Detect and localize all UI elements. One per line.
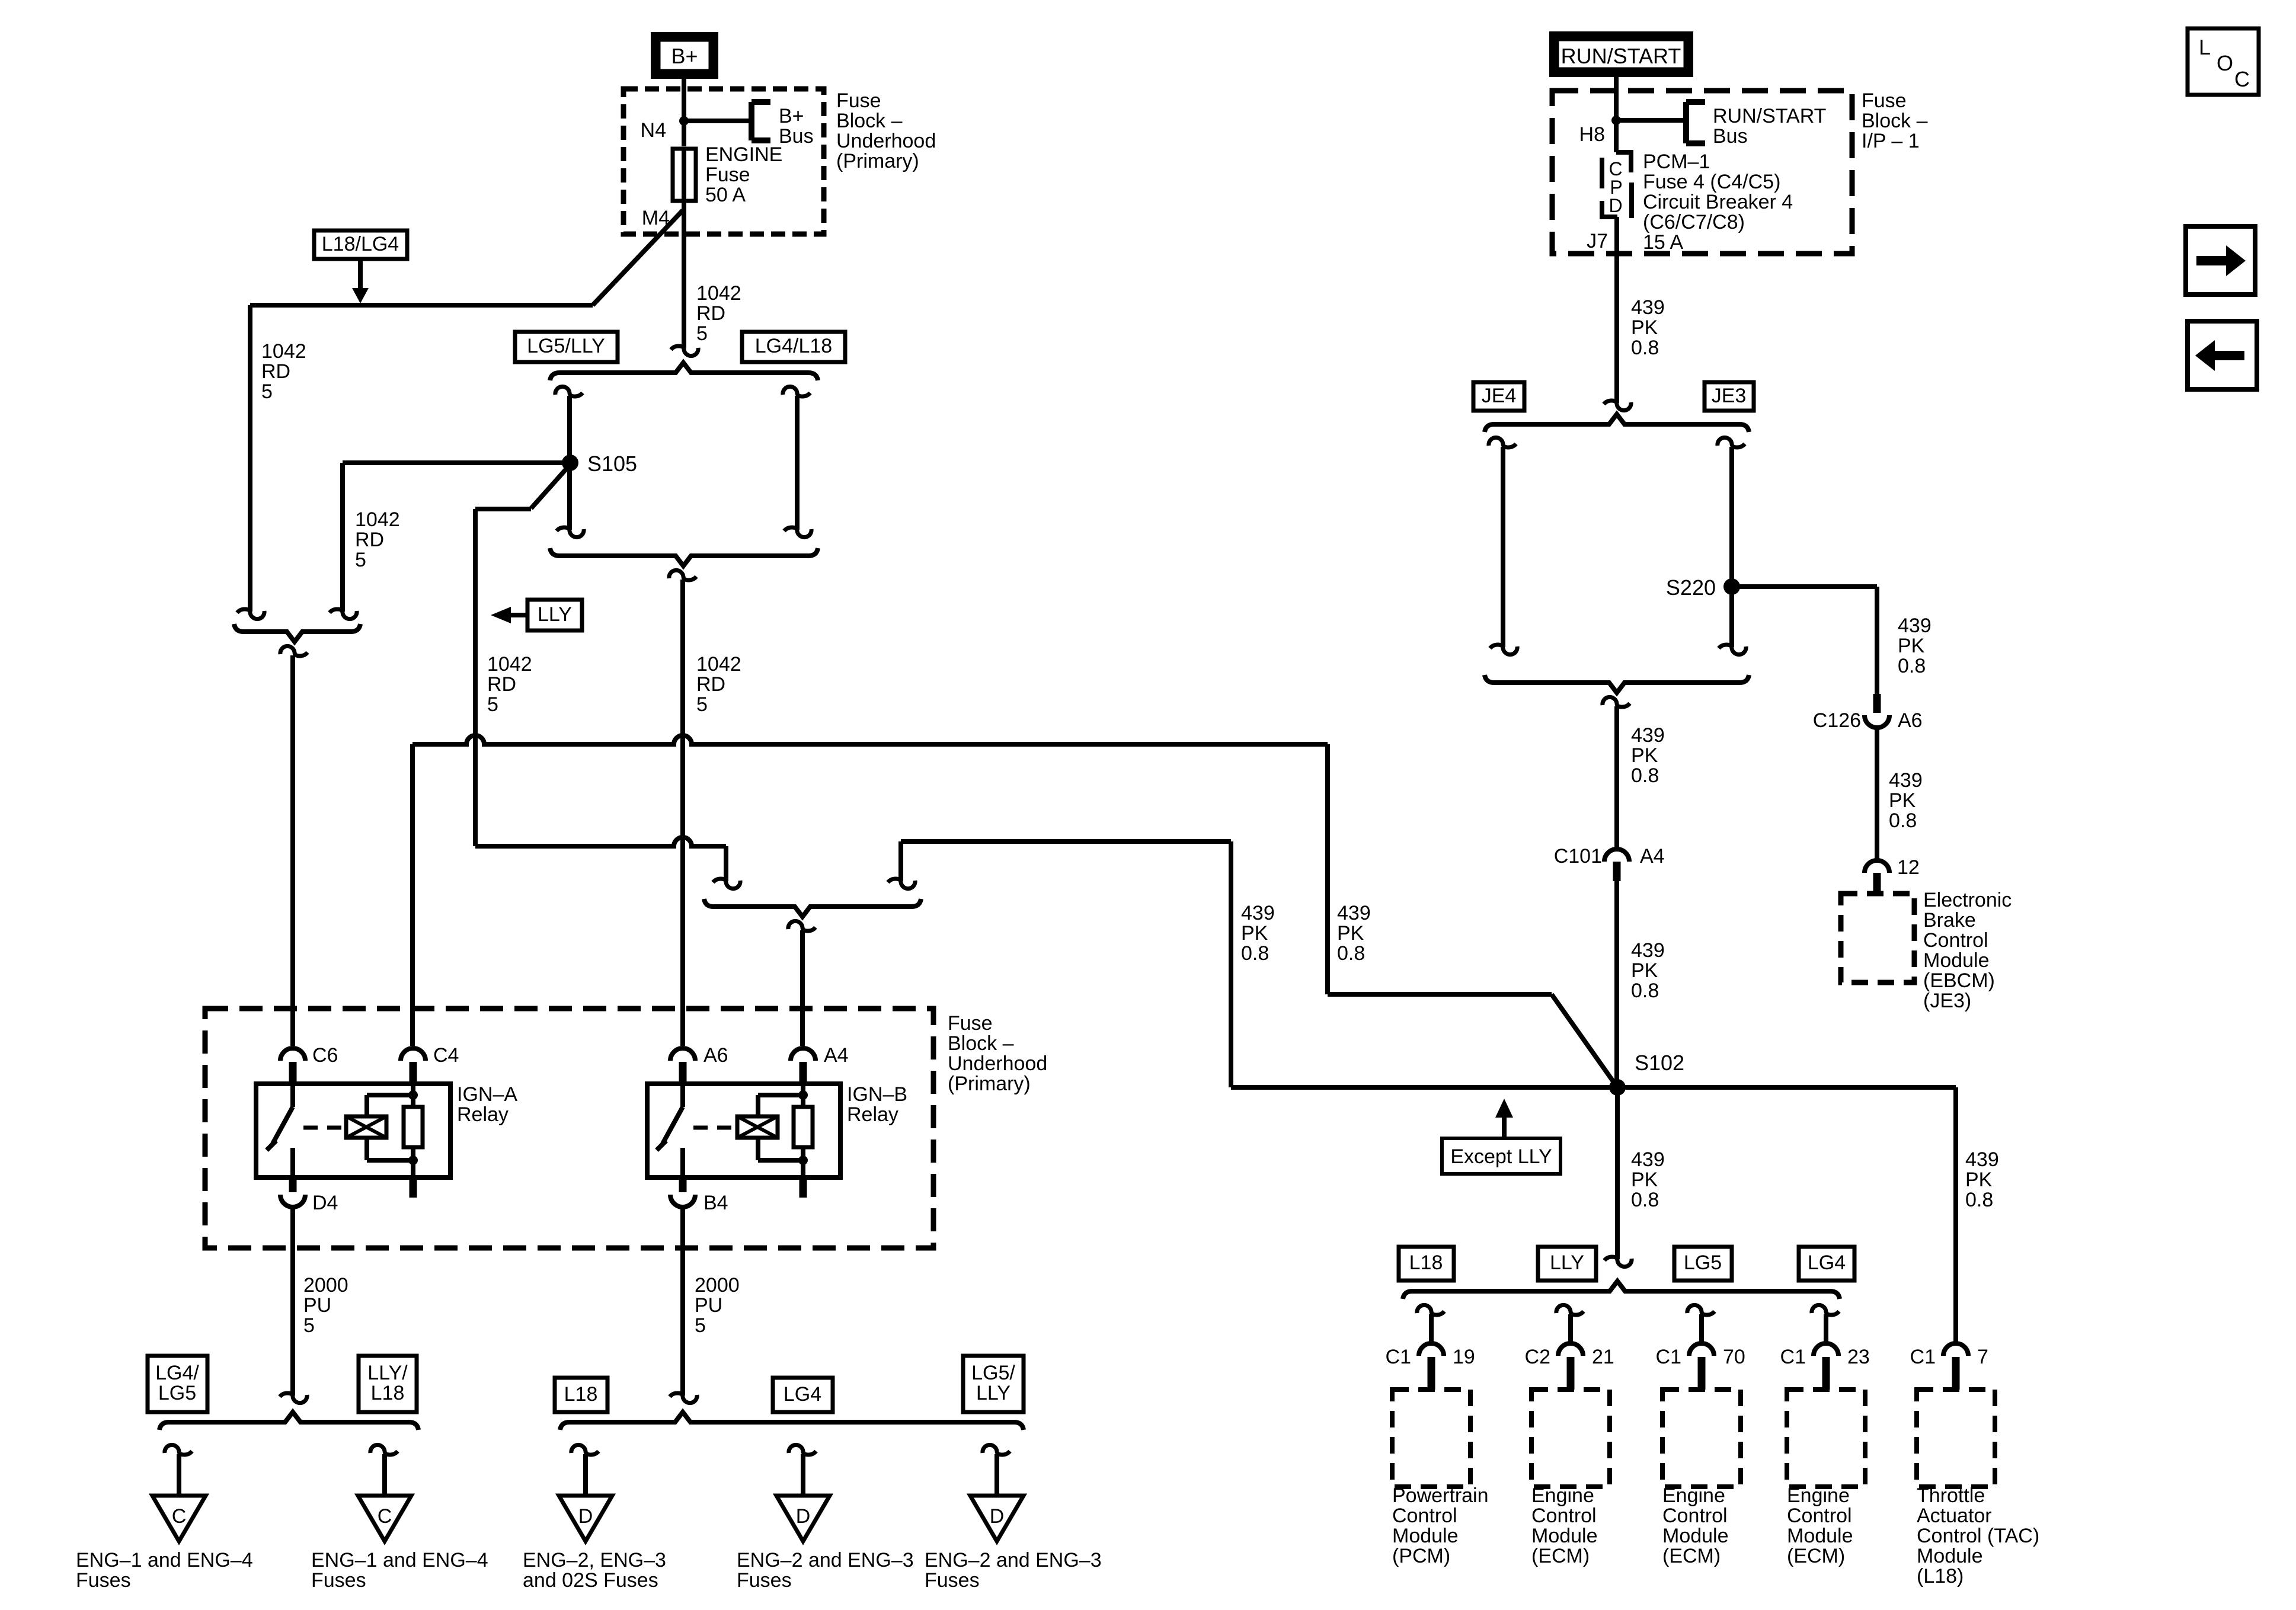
svg-text:(ECM): (ECM) xyxy=(1531,1545,1590,1567)
svg-text:0.8: 0.8 xyxy=(1337,942,1365,965)
svg-text:C1: C1 xyxy=(1656,1346,1681,1368)
svg-text:Block –: Block – xyxy=(1862,110,1928,132)
svg-text:C1: C1 xyxy=(1780,1346,1806,1368)
svg-text:RD: RD xyxy=(487,673,516,696)
connector C4 xyxy=(401,1048,426,1061)
connector C126 A6 xyxy=(1865,715,1889,728)
wire to C101 xyxy=(1614,706,1619,851)
label box Except LLY xyxy=(1442,1138,1560,1174)
option label box JE3 xyxy=(1705,382,1754,411)
wire H8 to bus xyxy=(1616,118,1686,123)
option label box L18 left xyxy=(555,1378,607,1412)
svg-text:PK: PK xyxy=(1631,744,1658,767)
svg-text:0.8: 0.8 xyxy=(1965,1189,1993,1211)
split brace D4 outputs xyxy=(159,1412,418,1430)
svg-text:(Primary): (Primary) xyxy=(836,150,919,172)
wire S220 right xyxy=(1732,584,1877,589)
wire right branch down to S102 rail xyxy=(1229,841,1233,1087)
branch hook right LG4/L18 xyxy=(783,386,810,396)
svg-text:JE4: JE4 xyxy=(1482,385,1517,407)
svg-text:(ECM): (ECM) xyxy=(1787,1545,1845,1567)
option label box LG4/LG5 xyxy=(148,1356,207,1412)
svg-text:5: 5 xyxy=(696,322,708,345)
branch hook PCM xyxy=(1417,1305,1444,1315)
wire break branch left bottom xyxy=(557,527,584,537)
wire to C triangle 2 xyxy=(382,1454,387,1496)
svg-text:B+: B+ xyxy=(671,44,698,68)
connector C6 xyxy=(280,1048,305,1061)
wire S102 down xyxy=(1615,1087,1620,1259)
branch hook LG4 xyxy=(789,1445,816,1455)
svg-text:21: 21 xyxy=(1592,1346,1614,1368)
svg-text:439: 439 xyxy=(1631,296,1665,319)
wire right branch up corner xyxy=(898,841,903,881)
svg-text:0.8: 0.8 xyxy=(1889,809,1917,832)
except LLY arrow xyxy=(1495,1099,1513,1118)
pin stub ECM2 xyxy=(1698,1357,1706,1390)
svg-text:A6: A6 xyxy=(703,1044,728,1067)
svg-text:IGN–A: IGN–A xyxy=(457,1083,517,1106)
wire 1042 line B with hop xyxy=(475,837,726,846)
fuse block underhood dashed box xyxy=(623,89,824,234)
node coil bottom IGN-B xyxy=(798,1156,808,1165)
option label box LG5/LLY xyxy=(515,332,618,362)
connector A4 xyxy=(791,1048,816,1061)
wire N4 to B+ bus xyxy=(684,119,752,123)
svg-text:5: 5 xyxy=(487,693,498,716)
grid triangle D 1 xyxy=(559,1496,612,1541)
svg-text:and 02S Fuses: and 02S Fuses xyxy=(523,1569,658,1592)
wire branch ECM1 xyxy=(1568,1314,1573,1343)
svg-text:(ECM): (ECM) xyxy=(1662,1545,1721,1567)
option label box L18/LG4 xyxy=(314,231,407,259)
svg-text:439: 439 xyxy=(1241,902,1275,924)
pin stub C126 top xyxy=(1873,694,1881,713)
svg-text:C6: C6 xyxy=(312,1044,338,1067)
svg-text:L: L xyxy=(2199,35,2211,59)
svg-text:L18: L18 xyxy=(371,1382,405,1404)
wire break left leg bottom xyxy=(237,609,264,619)
wire line A left corner down to C4 xyxy=(410,744,415,1046)
module dashed box ECM1 xyxy=(1531,1390,1610,1487)
node coil top IGN-B xyxy=(798,1090,808,1100)
relay box IGN-B xyxy=(647,1084,840,1177)
wire break below M4 xyxy=(671,346,698,356)
svg-text:C4: C4 xyxy=(433,1044,459,1067)
svg-text:7: 7 xyxy=(1977,1346,1988,1368)
svg-text:439: 439 xyxy=(1631,1148,1665,1171)
svg-text:C: C xyxy=(378,1505,392,1528)
svg-text:D: D xyxy=(796,1505,811,1528)
RUN/START bus bar xyxy=(1683,102,1689,143)
svg-text:RUN/START: RUN/START xyxy=(1561,44,1681,68)
wire break below S102 xyxy=(1604,1257,1632,1267)
coil wire top IGN-A xyxy=(364,1095,369,1116)
svg-text:439: 439 xyxy=(1337,902,1371,924)
wire C101 to S102 xyxy=(1614,881,1619,1087)
svg-text:15 A: 15 A xyxy=(1643,231,1683,254)
svg-text:PU: PU xyxy=(695,1294,722,1317)
svg-text:5: 5 xyxy=(261,380,273,403)
wire M4 down xyxy=(682,201,686,348)
node coil bottom IGN-A xyxy=(408,1156,418,1165)
wire line A diagonal to S102 xyxy=(1552,994,1617,1087)
branch hook LG4/LG5 xyxy=(165,1445,192,1455)
svg-text:2000: 2000 xyxy=(303,1274,348,1297)
svg-text:(C6/C7/C8): (C6/C7/C8) xyxy=(1643,211,1745,233)
split brace B4 outputs xyxy=(560,1412,1024,1430)
svg-text:ENG–1 and ENG–4: ENG–1 and ENG–4 xyxy=(76,1549,253,1571)
svg-text:PK: PK xyxy=(1889,789,1916,812)
svg-text:0.8: 0.8 xyxy=(1631,337,1659,359)
svg-text:LLY: LLY xyxy=(1550,1251,1584,1274)
wire 1042 RD center down to A6 xyxy=(680,580,685,1046)
svg-text:L18/LG4: L18/LG4 xyxy=(322,233,399,255)
power terminal RUN/START xyxy=(1553,36,1689,73)
svg-text:Engine: Engine xyxy=(1787,1484,1850,1507)
EBCM dashed box xyxy=(1841,894,1914,982)
svg-text:L18: L18 xyxy=(1409,1251,1443,1274)
wire S105 branch horizontal xyxy=(475,507,531,511)
svg-text:19: 19 xyxy=(1453,1346,1475,1368)
svg-text:Engine: Engine xyxy=(1662,1484,1725,1507)
wire line B corner down xyxy=(724,846,728,881)
branch hook LLY/L18 xyxy=(370,1445,398,1455)
connector D4 xyxy=(280,1195,305,1207)
svg-text:LG4: LG4 xyxy=(1808,1251,1846,1274)
svg-text:Powertrain: Powertrain xyxy=(1392,1484,1489,1507)
svg-text:J7: J7 xyxy=(1587,230,1608,252)
split brace IGN-B feed xyxy=(704,899,921,917)
svg-text:ENG–2 and ENG–3: ENG–2 and ENG–3 xyxy=(925,1549,1102,1571)
wire D4 down xyxy=(290,1209,295,1395)
pin stub ECM3 xyxy=(1822,1357,1830,1390)
svg-text:LG4: LG4 xyxy=(784,1383,821,1406)
svg-text:2000: 2000 xyxy=(695,1274,740,1297)
hook below JE merge xyxy=(1603,697,1630,707)
option label box LG4 left xyxy=(773,1378,833,1412)
svg-text:Fuses: Fuses xyxy=(925,1569,980,1592)
svg-text:Module: Module xyxy=(1917,1545,1983,1567)
branch hook JE3 xyxy=(1718,437,1745,447)
svg-text:B+: B+ xyxy=(779,105,804,127)
svg-text:439: 439 xyxy=(1631,939,1665,962)
pin stub A6 xyxy=(679,1062,687,1084)
svg-text:(PCM): (PCM) xyxy=(1392,1545,1450,1567)
svg-text:S105: S105 xyxy=(587,452,637,476)
option label box L18 right xyxy=(1399,1247,1454,1281)
wire to D triangle 1 xyxy=(583,1454,588,1496)
CPD circuit protection device xyxy=(1614,120,1619,152)
svg-text:(Primary): (Primary) xyxy=(948,1073,1031,1095)
node H8 xyxy=(1611,116,1621,125)
module dashed box TAC xyxy=(1917,1390,1995,1487)
node S102 xyxy=(1609,1079,1626,1096)
branch hook LG5/LLY bottom xyxy=(983,1445,1010,1455)
svg-text:PK: PK xyxy=(1631,316,1658,339)
svg-text:RD: RD xyxy=(355,529,384,551)
next-page arrow box xyxy=(2186,226,2255,295)
svg-text:S220: S220 xyxy=(1666,575,1716,600)
grid triangle D 2 xyxy=(776,1496,830,1541)
pin stub ECM1 xyxy=(1567,1357,1575,1390)
relay box IGN-A xyxy=(256,1084,450,1177)
pin stub A4 xyxy=(800,1062,807,1084)
svg-text:ENG–2, ENG–3: ENG–2, ENG–3 xyxy=(523,1549,666,1571)
svg-text:RD: RD xyxy=(261,360,290,383)
svg-text:N4: N4 xyxy=(641,119,666,142)
svg-text:(JE3): (JE3) xyxy=(1923,990,1971,1012)
svg-text:IGN–B: IGN–B xyxy=(847,1083,907,1106)
svg-text:Fuse: Fuse xyxy=(705,164,750,186)
coil wire top IGN-B xyxy=(756,1095,760,1116)
LOC legend box xyxy=(2188,28,2259,95)
svg-text:A4: A4 xyxy=(1640,845,1665,868)
svg-text:C: C xyxy=(172,1505,187,1528)
svg-text:70: 70 xyxy=(1723,1346,1745,1368)
wire left leg down xyxy=(248,305,252,612)
svg-text:Fuse: Fuse xyxy=(948,1012,993,1035)
svg-text:PK: PK xyxy=(1898,635,1925,657)
svg-text:0.8: 0.8 xyxy=(1631,1189,1659,1211)
svg-text:L18: L18 xyxy=(564,1383,598,1406)
wire break J7 xyxy=(1604,401,1631,411)
module dashed box ECM2 xyxy=(1662,1390,1741,1487)
svg-text:Throttle: Throttle xyxy=(1917,1484,1985,1507)
wire down to C6 xyxy=(290,655,295,1046)
svg-text:C2: C2 xyxy=(1525,1346,1550,1368)
svg-text:ENG–2 and ENG–3: ENG–2 and ENG–3 xyxy=(737,1549,914,1571)
svg-text:PK: PK xyxy=(1241,922,1268,945)
svg-text:C101: C101 xyxy=(1554,845,1602,868)
svg-text:LG5: LG5 xyxy=(1684,1251,1722,1274)
svg-text:439: 439 xyxy=(1889,769,1923,792)
wire S220 corner down xyxy=(1875,587,1879,695)
svg-text:I/P – 1: I/P – 1 xyxy=(1862,130,1920,152)
node N4 xyxy=(679,116,689,126)
split brace LG5/LLY vs LG4/L18 xyxy=(550,363,818,380)
branch hook JE4 xyxy=(1489,437,1516,447)
wire right branch horizontal xyxy=(901,839,1231,844)
svg-text:C126: C126 xyxy=(1813,709,1861,732)
wire B+ to N4 xyxy=(682,79,686,121)
wire to C triangle 1 xyxy=(177,1454,181,1496)
svg-text:Except LLY: Except LLY xyxy=(1450,1145,1552,1168)
svg-text:(L18): (L18) xyxy=(1917,1565,1964,1587)
resistor IGN-B xyxy=(801,1084,805,1107)
coil wire bottom IGN-B xyxy=(756,1138,760,1160)
svg-text:LLY: LLY xyxy=(976,1382,1011,1404)
wire to D triangle 2 xyxy=(801,1454,805,1496)
svg-text:Actuator: Actuator xyxy=(1917,1505,1992,1527)
module dashed box ECM3 xyxy=(1787,1390,1865,1487)
svg-text:0.8: 0.8 xyxy=(1631,764,1659,787)
svg-text:Control: Control xyxy=(1392,1505,1457,1527)
wire break D4 xyxy=(280,1393,307,1403)
svg-text:(EBCM): (EBCM) xyxy=(1923,969,1995,992)
svg-text:Circuit Breaker 4: Circuit Breaker 4 xyxy=(1643,191,1793,213)
svg-text:Block –: Block – xyxy=(948,1032,1014,1055)
grid triangle D 3 xyxy=(970,1496,1024,1541)
option label box LG4/L18 xyxy=(742,332,845,362)
wire S105 to left xyxy=(343,460,570,465)
connector C1 pin 7 TAC xyxy=(1943,1343,1968,1356)
connector 12 EBCM xyxy=(1865,860,1889,873)
svg-text:Fuses: Fuses xyxy=(76,1569,131,1592)
svg-text:Engine: Engine xyxy=(1531,1484,1594,1507)
wire branch ECM3 xyxy=(1824,1314,1828,1343)
node coil top IGN-A xyxy=(408,1090,418,1100)
svg-text:0.8: 0.8 xyxy=(1241,942,1269,965)
svg-text:Module: Module xyxy=(1531,1525,1598,1547)
option label box LG5 right xyxy=(1674,1247,1732,1281)
wire RUN/START to H8 xyxy=(1614,77,1619,120)
prev-page arrow box xyxy=(2188,321,2257,389)
merge brace JE4/JE3 xyxy=(1485,675,1749,693)
coil return stub IGN-A xyxy=(411,1160,415,1177)
svg-text:Underhood: Underhood xyxy=(836,130,936,152)
svg-text:C1: C1 xyxy=(1910,1346,1936,1368)
fuse F ENGINE 50A xyxy=(682,121,686,146)
svg-text:JE3: JE3 xyxy=(1712,385,1747,407)
wire B4 down xyxy=(680,1209,685,1395)
wire break JE3 bottom xyxy=(1719,645,1746,655)
svg-text:PK: PK xyxy=(1631,959,1658,982)
svg-text:LLY: LLY xyxy=(538,603,572,626)
option label box LLY right xyxy=(1538,1247,1596,1281)
svg-text:Fuse: Fuse xyxy=(1862,89,1907,112)
svg-text:LG4/: LG4/ xyxy=(155,1362,199,1384)
svg-text:S102: S102 xyxy=(1635,1051,1684,1075)
wire break S105 left leg xyxy=(330,609,357,619)
svg-text:439: 439 xyxy=(1965,1148,1999,1171)
pin stub C4 xyxy=(410,1062,417,1084)
pin stub C6 xyxy=(289,1062,297,1084)
svg-text:O: O xyxy=(2217,51,2233,75)
svg-text:Fuse 4 (C4/C5): Fuse 4 (C4/C5) xyxy=(1643,171,1780,193)
svg-text:Control: Control xyxy=(1531,1505,1597,1527)
svg-text:0.8: 0.8 xyxy=(1631,980,1659,1002)
svg-text:5: 5 xyxy=(303,1314,315,1337)
svg-text:Bus: Bus xyxy=(779,125,814,148)
fuse block underhood primary dashed box xyxy=(205,1009,933,1248)
wire S105 diagonal xyxy=(531,465,570,508)
wire S102 rail xyxy=(1231,1085,1956,1090)
svg-text:Control: Control xyxy=(1787,1505,1852,1527)
svg-text:Brake: Brake xyxy=(1923,909,1976,932)
svg-text:Module: Module xyxy=(1662,1525,1729,1547)
wire branch JE4 xyxy=(1501,447,1505,647)
svg-text:C: C xyxy=(2234,67,2250,91)
svg-text:RD: RD xyxy=(696,302,725,325)
wire branch ECM2 xyxy=(1699,1314,1704,1343)
svg-text:Fuses: Fuses xyxy=(311,1569,366,1592)
svg-text:439: 439 xyxy=(1898,614,1932,637)
svg-text:Control (TAC): Control (TAC) xyxy=(1917,1525,2039,1547)
wire break JE4 bottom xyxy=(1490,645,1517,655)
branch hook L18 xyxy=(571,1445,599,1455)
svg-text:B4: B4 xyxy=(703,1192,728,1214)
wire C126 down xyxy=(1875,729,1879,859)
wire break line B end xyxy=(713,879,740,889)
svg-text:Fuse: Fuse xyxy=(836,89,881,112)
svg-text:D: D xyxy=(990,1505,1005,1528)
wire branch right xyxy=(795,396,800,530)
coil wire bottom IGN-A xyxy=(364,1138,369,1160)
option label box LG4 right xyxy=(1799,1247,1854,1281)
svg-text:1042: 1042 xyxy=(261,340,306,363)
connector B4 xyxy=(670,1195,695,1207)
svg-text:Module: Module xyxy=(1787,1525,1853,1547)
wire break branch right bottom xyxy=(784,527,811,537)
wire branch left xyxy=(567,396,572,530)
merge brace left pair xyxy=(234,624,360,642)
switch actuation dashed IGN-A xyxy=(303,1126,346,1130)
svg-text:1042: 1042 xyxy=(355,508,400,531)
svg-text:ENG–1 and ENG–4: ENG–1 and ENG–4 xyxy=(311,1549,488,1571)
wire L18/LG4 horizontal xyxy=(250,303,593,308)
svg-text:PK: PK xyxy=(1631,1169,1658,1191)
pin stub TAC xyxy=(1952,1357,1960,1390)
wire S105 branch down to IGN-B feed xyxy=(473,509,478,846)
svg-text:23: 23 xyxy=(1847,1346,1870,1368)
svg-text:5: 5 xyxy=(695,1314,706,1337)
split brace JE4/JE3 xyxy=(1485,414,1749,432)
arrow from L18/LG4 to wire xyxy=(358,259,363,289)
connector C1 pin 19 PCM xyxy=(1419,1343,1444,1356)
branch hook ECM1 xyxy=(1556,1305,1584,1315)
label LLY with arrow xyxy=(491,607,511,623)
coil IGN-A xyxy=(346,1116,386,1138)
power terminal B+ xyxy=(655,36,714,75)
svg-text:439: 439 xyxy=(1631,724,1665,747)
svg-text:C1: C1 xyxy=(1386,1346,1411,1368)
svg-text:1042: 1042 xyxy=(487,653,532,676)
svg-text:1042: 1042 xyxy=(696,282,741,305)
svg-text:5: 5 xyxy=(355,549,366,571)
split brace modules xyxy=(1403,1281,1840,1299)
switch IGN-B xyxy=(680,1084,685,1107)
wire branch JE3 xyxy=(1729,447,1734,647)
connector A6 xyxy=(670,1048,695,1061)
switch IGN-A xyxy=(290,1084,295,1107)
hook below merge brace xyxy=(669,570,696,580)
svg-text:LG5/: LG5/ xyxy=(971,1362,1015,1384)
svg-text:Module: Module xyxy=(1923,949,1990,972)
node S220 xyxy=(1723,578,1740,595)
svg-text:1042: 1042 xyxy=(696,653,741,676)
wire to D triangle 3 xyxy=(994,1454,999,1496)
svg-text:Module: Module xyxy=(1392,1525,1459,1547)
pin stub C101 xyxy=(1613,862,1621,881)
wire M4 diagonal to L18/LG4 branch xyxy=(593,210,683,305)
wire break right branch xyxy=(888,879,915,889)
svg-text:D: D xyxy=(578,1505,593,1528)
connector C2 pin 21 ECM1 xyxy=(1558,1343,1583,1356)
svg-text:5: 5 xyxy=(696,693,708,716)
svg-text:Underhood: Underhood xyxy=(948,1052,1047,1075)
wire brace to A4 xyxy=(800,930,805,1046)
wire break B4 xyxy=(670,1393,697,1403)
coil IGN-B xyxy=(737,1116,778,1138)
svg-text:Fuses: Fuses xyxy=(737,1569,792,1592)
wire J7 down xyxy=(1614,217,1619,403)
svg-text:D: D xyxy=(1609,195,1622,216)
svg-text:PK: PK xyxy=(1337,922,1364,945)
connector C1 pin 23 ECM3 xyxy=(1814,1343,1838,1356)
svg-text:Control: Control xyxy=(1923,929,1988,952)
wire 439 horizontal line A with hops xyxy=(412,735,1328,744)
